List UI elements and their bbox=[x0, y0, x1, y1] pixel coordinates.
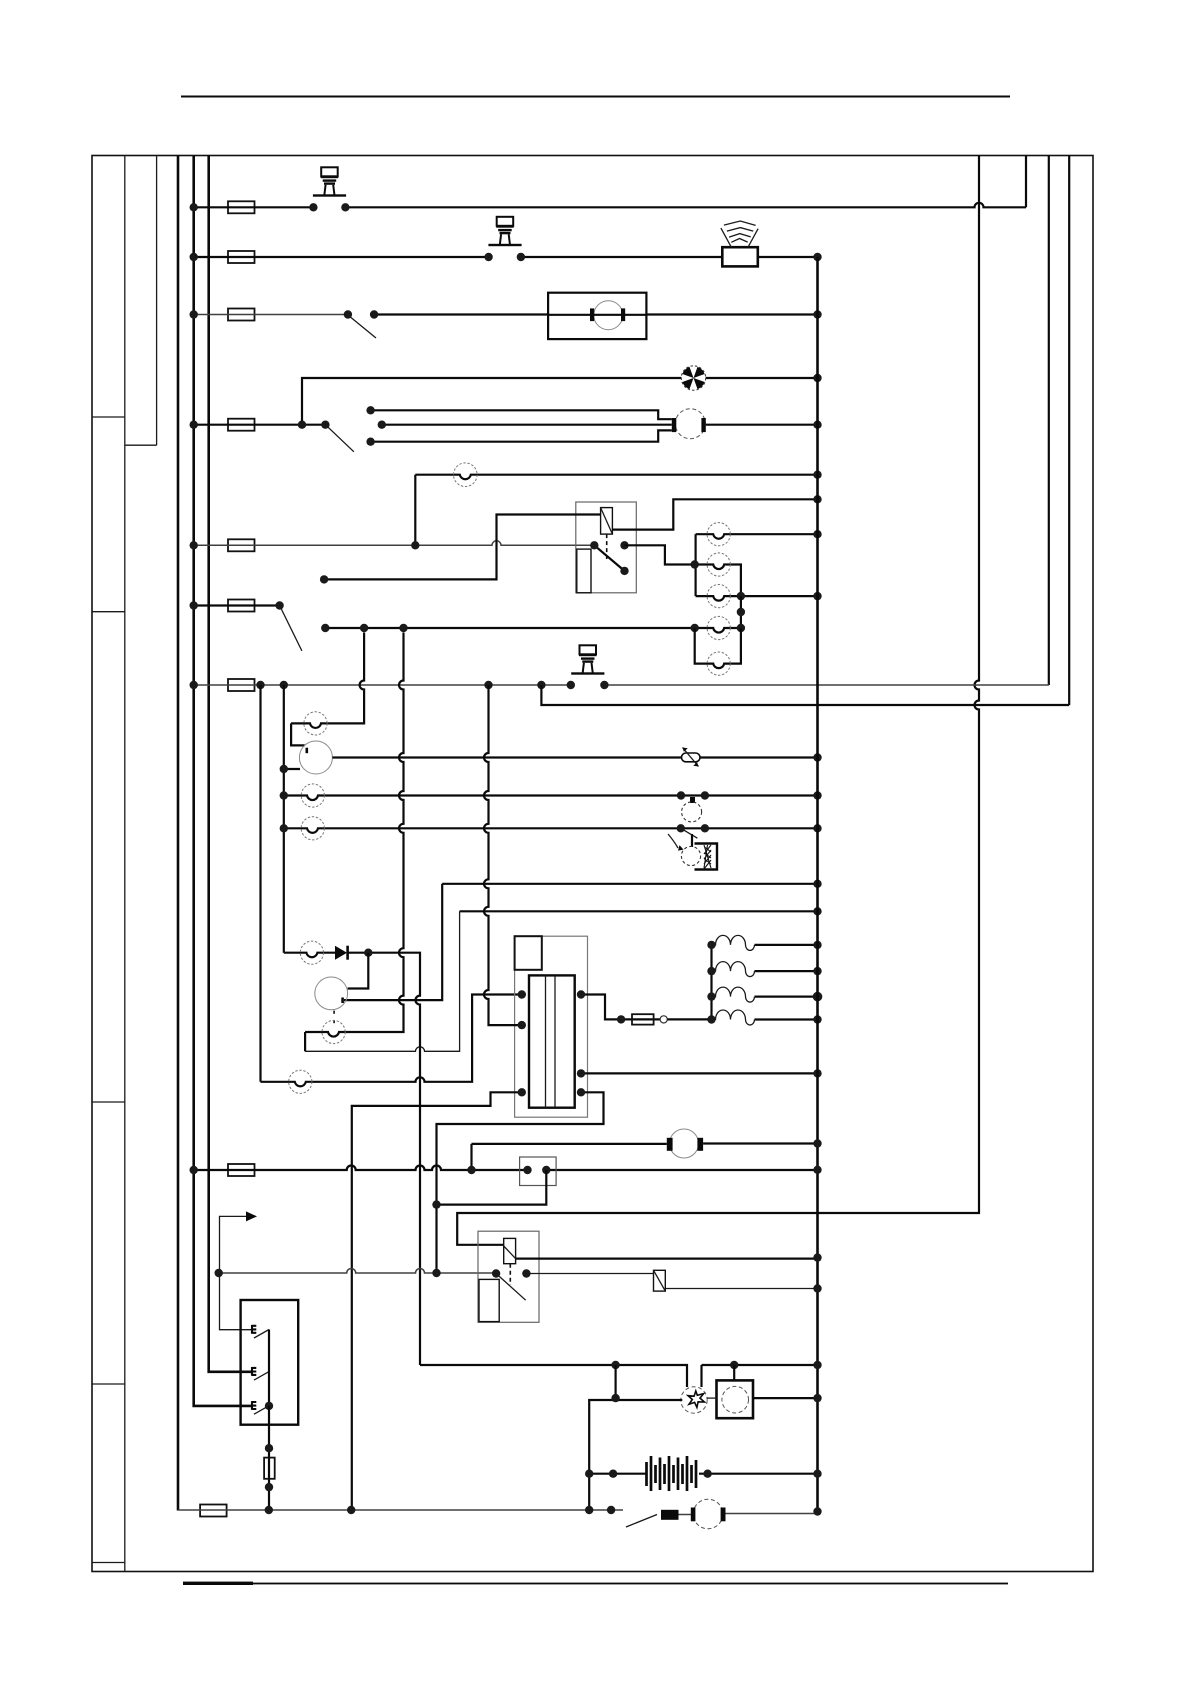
node row6 bbox=[275, 601, 283, 609]
relay K2 coil bbox=[504, 1238, 516, 1263]
left column divider y1565 bbox=[92, 1562, 125, 1564]
node fan bus bbox=[813, 374, 821, 382]
wire heater right bbox=[753, 1397, 818, 1399]
ignition switch box bbox=[520, 1157, 557, 1186]
fuse F5 bbox=[228, 539, 255, 551]
switch box SW3 bbox=[241, 1300, 299, 1425]
arrow marker bbox=[220, 1211, 258, 1273]
wire coil RT bbox=[581, 995, 660, 1020]
switch common bar bbox=[268, 1330, 270, 1406]
wire heater top bbox=[733, 1365, 735, 1380]
node battery b bbox=[609, 1470, 617, 1478]
node sw a bbox=[523, 1166, 531, 1174]
switch blade row4 bbox=[325, 425, 354, 452]
wire fan left bbox=[589, 1400, 682, 1510]
node L2 left bbox=[691, 560, 699, 568]
push button S1 bbox=[313, 167, 346, 196]
bus B2 x194 bbox=[194, 156, 251, 1406]
wire switch1 feed bbox=[220, 1273, 252, 1330]
node R6 top bbox=[265, 1444, 273, 1452]
node row7 e bbox=[567, 681, 575, 689]
wire coil feed bbox=[324, 515, 600, 580]
wire K2 NO out bbox=[526, 1274, 817, 1289]
node row2 b bbox=[517, 253, 525, 261]
node bottom d bbox=[607, 1506, 615, 1514]
relay K1 NO contact bbox=[620, 541, 628, 549]
lamp L1 bbox=[707, 523, 730, 546]
node bus row6 bbox=[190, 601, 198, 609]
node row828 bus bbox=[813, 824, 821, 832]
wire sw return bbox=[437, 1170, 547, 1205]
node motor bus bbox=[813, 1139, 821, 1147]
diode D1 bbox=[335, 946, 349, 960]
bus V283 bbox=[283, 685, 285, 953]
node R5 bus bbox=[813, 1015, 821, 1023]
resistor ladder feed bbox=[710, 945, 712, 1020]
bus V817 bbox=[816, 257, 819, 1512]
node diode row bbox=[364, 949, 372, 957]
node row7 d bbox=[537, 681, 545, 689]
wire R2 to bus bbox=[755, 944, 818, 946]
connector ring bbox=[660, 1016, 667, 1023]
node bus row2 bbox=[190, 253, 198, 261]
wire coil LM bbox=[484, 685, 522, 1025]
node row1365 b bbox=[730, 1361, 738, 1369]
node row795 bus bbox=[813, 791, 821, 799]
wire row757 bbox=[332, 756, 817, 758]
wire fan to heater bbox=[707, 1397, 717, 1399]
bus V260 bbox=[259, 685, 261, 1082]
lamp L8 bbox=[301, 817, 324, 840]
node R6 bottom bbox=[265, 1483, 273, 1491]
relay K1 box bbox=[576, 502, 637, 593]
lamp bulb row bbox=[454, 463, 478, 487]
wire row7 bbox=[194, 684, 1049, 686]
fuse F1 bbox=[228, 201, 255, 213]
node L3 bus bbox=[813, 592, 821, 600]
fuse F4 bbox=[228, 419, 255, 431]
horn H1 bbox=[721, 221, 758, 266]
node row828 a bbox=[677, 824, 685, 832]
node bottom a bbox=[265, 1506, 273, 1514]
right frame wire x979 bbox=[457, 156, 979, 1245]
wire row7 riser x1049 bbox=[1048, 156, 1050, 686]
wire gauge stub bbox=[284, 768, 300, 770]
wire diode row bbox=[284, 953, 420, 1365]
relay K1 coil bbox=[601, 508, 613, 534]
node bottom b bbox=[347, 1506, 355, 1514]
node row1 b bbox=[341, 203, 349, 211]
starter M4 bbox=[691, 1499, 726, 1529]
node gauge stub bbox=[280, 765, 288, 773]
node K2 out bus bbox=[813, 1253, 821, 1261]
node drop mid bbox=[737, 608, 745, 616]
switch SW3a bbox=[252, 1325, 269, 1338]
node R5 left bbox=[707, 1015, 715, 1023]
node L1 bus bbox=[813, 530, 821, 538]
node row2 a bbox=[484, 253, 492, 261]
second column bottom bbox=[125, 444, 157, 446]
relay K1 common bbox=[590, 541, 598, 549]
node sw return bbox=[432, 1200, 440, 1208]
rheostat R1 bbox=[682, 748, 701, 767]
wire R5 to bus bbox=[755, 1018, 818, 1020]
node row1365 bus bbox=[813, 1361, 821, 1369]
node battery bus bbox=[813, 1470, 821, 1478]
node coil RT bbox=[577, 990, 585, 998]
node cable top bbox=[366, 406, 374, 414]
wire row911 bbox=[460, 910, 818, 912]
switch blade row3 bbox=[348, 315, 376, 338]
wire row3 right bbox=[374, 313, 817, 315]
lamp L6 bbox=[304, 712, 327, 735]
resistor R3 bbox=[712, 962, 755, 977]
resistor R4 bbox=[712, 987, 755, 1002]
node bus row3 bbox=[190, 310, 198, 318]
relay K2 NO contact bbox=[522, 1269, 530, 1277]
wire bottom row bbox=[178, 1510, 818, 1515]
node coil out bus bbox=[813, 495, 821, 503]
node bus row7 bbox=[190, 681, 198, 689]
wire lamp723 to gauge bbox=[291, 723, 305, 745]
cable wire bottom bbox=[371, 430, 672, 441]
node starter bus bbox=[813, 1507, 821, 1515]
node row7 a bbox=[256, 681, 264, 689]
node row911 bus bbox=[813, 907, 821, 915]
resistor R2 bbox=[712, 935, 755, 950]
fuse F6 bbox=[228, 600, 255, 612]
switch SW3c bbox=[252, 1401, 269, 1414]
wire row1 riser x1026 bbox=[1025, 156, 1027, 208]
node sw b bbox=[542, 1166, 550, 1174]
node row1365 a bbox=[611, 1361, 619, 1369]
node cable mid bbox=[378, 421, 386, 429]
wire coil out bbox=[612, 499, 817, 529]
wire L1 row bbox=[696, 534, 818, 539]
node battery c bbox=[703, 1470, 711, 1478]
node gray a bbox=[215, 1269, 223, 1277]
relay K2 box bbox=[478, 1231, 539, 1322]
wire L3 row bbox=[696, 596, 818, 601]
relay K1 resistor block bbox=[577, 549, 591, 593]
fuse F9 bbox=[632, 1014, 654, 1024]
wire gray1273 bbox=[219, 1269, 496, 1274]
battery BT1 bbox=[647, 1456, 697, 1491]
relay K2 blade bbox=[496, 1274, 526, 1301]
wire L3-L4 drop bbox=[740, 596, 742, 628]
wire R3 to bus bbox=[755, 970, 818, 972]
node R4 bus bbox=[813, 992, 823, 1002]
left column divider y1360 bbox=[92, 1383, 125, 1385]
node SW3 common bbox=[265, 1402, 273, 1410]
bottom rule left segment bbox=[183, 1582, 253, 1585]
wire bulb row bbox=[415, 475, 817, 480]
wire motor row bbox=[472, 1144, 818, 1171]
node row3 b bbox=[370, 310, 378, 318]
starter switch blade bbox=[626, 1515, 657, 1528]
fan FN1 bbox=[681, 366, 705, 390]
wire row795 bbox=[284, 796, 818, 801]
wire SW3 output bbox=[268, 1406, 270, 1510]
heater switch assembly bbox=[668, 828, 717, 869]
switch SW3b bbox=[252, 1367, 269, 1380]
lamp L11 bbox=[289, 1070, 312, 1093]
node coil RM bbox=[577, 1069, 585, 1077]
lamp L7 bbox=[301, 784, 324, 807]
node coil LB bbox=[518, 1088, 526, 1096]
node row7 f bbox=[600, 681, 608, 689]
node row4 b bbox=[321, 421, 329, 429]
left column divider y612 bbox=[92, 611, 125, 613]
motor M1 box bbox=[548, 293, 646, 339]
heater box bbox=[717, 1380, 754, 1418]
node fan wire bbox=[611, 1394, 619, 1402]
ignition block inner rect bbox=[529, 975, 575, 1107]
relay K2 resistor block bbox=[479, 1279, 499, 1321]
node row795 b bbox=[701, 791, 709, 799]
node bus row5 bbox=[190, 541, 198, 549]
node bus row1 bbox=[190, 203, 198, 211]
wire row883 bbox=[442, 883, 817, 885]
node row795 a bbox=[677, 791, 685, 799]
wire row1 bbox=[194, 203, 1026, 207]
node row7 b bbox=[280, 681, 288, 689]
node coil feed bbox=[320, 575, 328, 583]
wire row8 bbox=[194, 1166, 818, 1171]
cable wire top bbox=[371, 410, 672, 419]
cable wire mid bbox=[382, 424, 672, 426]
left margin column bbox=[124, 156, 126, 1572]
motor M3 bbox=[667, 1129, 703, 1158]
fuse F10 bbox=[200, 1505, 227, 1517]
wire row705 riser x1069 bbox=[1068, 156, 1070, 706]
node bulb bus bbox=[813, 471, 821, 479]
wire L2 row bbox=[695, 565, 741, 597]
left column divider y417 bbox=[92, 416, 125, 418]
node row628 b bbox=[399, 624, 407, 632]
relay K1 blade bbox=[594, 545, 624, 571]
wire lamp ladder feed bbox=[625, 545, 695, 564]
wire coil RB bbox=[437, 1092, 604, 1273]
wire row705 bbox=[541, 685, 1069, 705]
lamp L10 bbox=[322, 1020, 345, 1043]
node bus row4 bbox=[190, 421, 198, 429]
wire L1 left drop bbox=[694, 534, 696, 596]
wire L5 loop bbox=[695, 628, 741, 668]
wire row628 bbox=[325, 628, 741, 633]
top rule bbox=[181, 96, 1010, 98]
motor M2 bbox=[672, 409, 706, 439]
fuse F7 bbox=[228, 679, 255, 691]
ignition block corner box bbox=[515, 936, 542, 970]
node row628 a bbox=[360, 624, 368, 632]
wire row4 left bbox=[194, 424, 326, 426]
node R4 left bbox=[707, 992, 715, 1000]
fuse F3 bbox=[228, 309, 255, 321]
wire row3 left bbox=[194, 314, 348, 316]
thermal switch TS1 bbox=[682, 797, 702, 822]
wire fan row bbox=[302, 378, 818, 425]
wire fuse row to resistors bbox=[667, 1018, 711, 1020]
relay K1 dashed link bbox=[606, 534, 608, 559]
wire row1032 bbox=[305, 633, 403, 1037]
node row883 bus bbox=[813, 880, 821, 888]
node R3 bus bbox=[813, 967, 821, 975]
gauge G1 bbox=[299, 741, 332, 774]
wire diode to alternator bbox=[348, 953, 369, 989]
node row4 bus bbox=[813, 421, 821, 429]
node row8 a bbox=[467, 1166, 475, 1174]
node row757 bus bbox=[813, 753, 821, 761]
node row8 bus bbox=[813, 1166, 821, 1174]
wire row2 bbox=[194, 256, 818, 258]
lamp L9 bbox=[300, 941, 323, 964]
compressor fan bbox=[681, 1387, 707, 1413]
lamp L5 bbox=[707, 652, 730, 675]
node bottom c bbox=[585, 1506, 593, 1514]
resistor R5 bbox=[712, 1010, 755, 1025]
wire alt output bbox=[344, 884, 442, 1000]
wire coil RM bbox=[581, 1072, 818, 1074]
push button S3 bbox=[571, 645, 604, 674]
relay K2 common bbox=[492, 1269, 500, 1277]
wire coil LB bbox=[352, 1092, 522, 1510]
node row795 left bbox=[280, 791, 288, 799]
wire row1365 bbox=[420, 1365, 818, 1387]
bottom rule bbox=[183, 1583, 1008, 1585]
node R3 left bbox=[707, 967, 715, 975]
second column line bbox=[156, 156, 158, 446]
node row828 left bbox=[280, 824, 288, 832]
switch blade row6 bbox=[280, 606, 302, 651]
node L4 left bbox=[691, 624, 699, 632]
wire row5 bbox=[194, 541, 595, 546]
push button S2 bbox=[488, 217, 521, 246]
node row1 a bbox=[309, 203, 317, 211]
node heater bus bbox=[813, 1394, 821, 1402]
ignition block outer box bbox=[515, 936, 588, 1117]
node row2 bus bbox=[813, 253, 821, 261]
alternator G2 bbox=[315, 977, 348, 1026]
wire K2 coil out bbox=[516, 1257, 818, 1259]
node row828 b bbox=[701, 824, 709, 832]
wire row828 bbox=[284, 828, 818, 833]
wire bulb to row5 bbox=[414, 475, 416, 546]
wire row1081 bbox=[261, 995, 522, 1087]
ballast resistor bbox=[661, 1510, 679, 1520]
node row3 a bbox=[344, 310, 352, 318]
node R2 bus bbox=[813, 941, 821, 949]
frame border bbox=[92, 156, 1093, 1572]
node bus row8 bbox=[190, 1166, 198, 1174]
wire row6 bbox=[194, 604, 280, 606]
motor M1 bbox=[548, 301, 646, 330]
wire battery row bbox=[589, 1473, 817, 1475]
lamp L3 bbox=[707, 585, 730, 608]
node gray b bbox=[432, 1269, 440, 1277]
flasher FL1 bbox=[654, 1270, 666, 1291]
node coil LM bbox=[518, 1021, 526, 1029]
node battery a bbox=[585, 1470, 593, 1478]
fuse F2 bbox=[228, 251, 255, 263]
wire row1032 drop bbox=[304, 1032, 306, 1051]
node row628 end bbox=[321, 624, 329, 632]
node fuse row bbox=[617, 1015, 625, 1023]
node coil LT bbox=[518, 990, 526, 998]
node row4 a bbox=[298, 421, 306, 429]
fuse F8 bbox=[228, 1164, 255, 1176]
lamp L2 bbox=[707, 553, 730, 576]
bus B1 x178 bbox=[177, 156, 180, 1511]
node row7 c bbox=[484, 681, 492, 689]
node cable bottom bbox=[366, 438, 374, 446]
relay K1 blade tip bbox=[620, 567, 628, 575]
node row3 bus bbox=[813, 310, 821, 318]
node row1073 bus bbox=[813, 1069, 821, 1077]
node coil RB bbox=[577, 1088, 585, 1096]
wire gray1051 riser bbox=[305, 911, 460, 1051]
wire heater link bbox=[614, 1365, 616, 1398]
node row5 mid bbox=[411, 541, 419, 549]
lamp L4 bbox=[707, 616, 730, 639]
wire lamp723 row bbox=[291, 633, 364, 728]
node L4 right bbox=[737, 624, 745, 632]
wire R4 to bus bbox=[755, 995, 818, 997]
relay K2 dashed link bbox=[509, 1264, 511, 1285]
wire motor M2 to bus bbox=[706, 424, 818, 426]
resistor R6 bbox=[264, 1458, 275, 1479]
node L3 mid bbox=[737, 592, 745, 600]
node NO out bus bbox=[813, 1284, 821, 1292]
bus B3 x209 bbox=[209, 156, 251, 1372]
node R2 left bbox=[707, 941, 715, 949]
left column divider y1102 bbox=[92, 1101, 125, 1103]
